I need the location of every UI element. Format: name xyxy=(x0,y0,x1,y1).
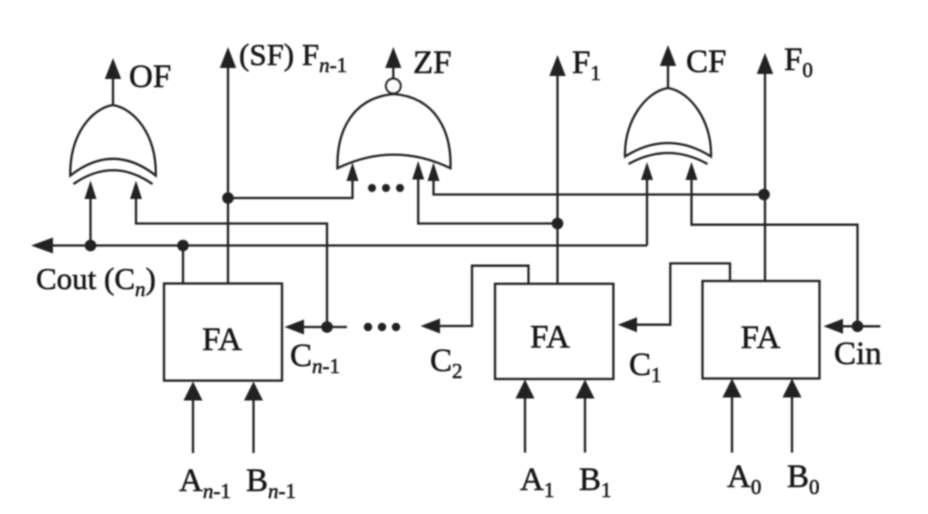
arrowhead F0 up xyxy=(757,53,773,74)
svg-text:B1: B1 xyxy=(579,462,612,502)
nor gate ZF body xyxy=(337,94,450,168)
svg-text:FA: FA xyxy=(530,320,570,356)
svg-text:CF: CF xyxy=(686,44,726,80)
xor gate CF lower arc xyxy=(629,153,708,164)
ellipsis dots on ZF inputs xyxy=(368,184,376,192)
svg-text:Cout (Cn): Cout (Cn) xyxy=(36,261,156,301)
arrowhead Cout left xyxy=(31,238,53,254)
wire carry C2 elbow from FA(1) xyxy=(437,266,529,326)
wire input A0 shaft xyxy=(731,395,733,453)
wire FA(n-1) carry-out riser xyxy=(182,246,184,284)
arrowhead F1 up xyxy=(549,55,565,76)
svg-text:(SF) Fn-1: (SF) Fn-1 xyxy=(239,37,347,77)
xor gate OF body xyxy=(70,105,156,176)
wire F1 sum line xyxy=(556,74,558,284)
arrowhead input An-1 up xyxy=(184,382,203,401)
arrowhead input Bn-1 up xyxy=(244,382,263,401)
junction dot on Cout at OF input xyxy=(85,240,97,252)
svg-text:F0: F0 xyxy=(784,42,813,82)
wire carry C(n-1) into FA(n-1) xyxy=(301,326,347,328)
svg-text:ZF: ZF xyxy=(413,45,452,81)
wire input An-1 shaft xyxy=(192,398,194,453)
svg-text:C1: C1 xyxy=(629,347,662,387)
xor gate CF body xyxy=(625,88,711,157)
wire input A1 shaft xyxy=(524,396,526,453)
arrowhead OF input left xyxy=(85,181,97,200)
wire OF input left shaft xyxy=(89,196,91,246)
wire CF input left shaft (from Cout line) xyxy=(646,178,648,246)
svg-text:OF: OF xyxy=(129,59,171,95)
svg-text:B0: B0 xyxy=(787,459,820,499)
arrowhead ZF flag up xyxy=(385,47,401,68)
junction dot on C(n-1) wire from OF input xyxy=(321,321,333,333)
svg-text:FA: FA xyxy=(741,320,781,356)
wire F0 sum line xyxy=(764,72,766,281)
junction dot on Cout at FA(n-1) carry-out xyxy=(177,240,189,252)
arrowhead CF input left xyxy=(641,162,653,180)
junction dot on SF line to ZF xyxy=(222,192,234,204)
svg-text:An-1: An-1 xyxy=(179,463,231,503)
wire CF output stub xyxy=(667,62,669,88)
arrowhead input A0 up xyxy=(723,379,742,398)
arrowhead ZF input3 xyxy=(428,163,440,182)
wire input Bn-1 shaft xyxy=(252,398,254,453)
ellipsis dots on carry chain xyxy=(364,323,372,331)
wire Cin into FA(0) xyxy=(840,325,880,327)
svg-text:Cin: Cin xyxy=(834,336,882,372)
wire Cout bus xyxy=(47,244,647,246)
inverter bubble on ZF output xyxy=(386,79,401,94)
junction dot on F0 line to ZF xyxy=(758,189,770,201)
wire input B1 shaft xyxy=(584,396,586,453)
arrowhead CF input right xyxy=(686,162,698,180)
arrowhead ZF input1 xyxy=(347,163,359,182)
svg-text:F1: F1 xyxy=(572,45,601,85)
arrowhead Cin left into FA(0) xyxy=(824,319,844,334)
svg-text:FA: FA xyxy=(202,322,242,358)
wire OF input right shaft xyxy=(136,196,327,327)
full-adder FA(0) box xyxy=(703,281,820,379)
arrowhead OF input right xyxy=(130,181,142,200)
arrowhead ZF input2 xyxy=(412,161,424,180)
arrowhead input B1 up xyxy=(576,380,595,399)
wire CF input right shaft xyxy=(692,178,858,326)
wire OF output stub xyxy=(112,75,114,105)
arrowhead input B0 up xyxy=(783,379,802,398)
arrowhead SF flag up xyxy=(220,47,236,68)
arrowhead CF flag up xyxy=(660,45,676,66)
svg-text:A0: A0 xyxy=(727,459,761,499)
wire carry C1 elbow from FA(0) xyxy=(634,263,730,324)
arrowhead carry C1 left into FA(1) xyxy=(618,317,637,332)
junction dot on Cin wire to CF xyxy=(852,321,864,333)
arrowhead input A1 up xyxy=(516,380,535,399)
wire ZF arrow shaft from bubble xyxy=(392,66,394,80)
wire SF / F(n-1) sum line xyxy=(227,66,229,284)
svg-text:Bn-1: Bn-1 xyxy=(246,463,296,503)
full-adder FA(n-1) box xyxy=(164,284,282,381)
junction dot on F1 line to ZF xyxy=(552,218,564,230)
svg-text:Cn-1: Cn-1 xyxy=(290,338,340,378)
wire input B0 shaft xyxy=(791,395,793,453)
svg-text:C2: C2 xyxy=(430,343,463,383)
full-adder FA(1) box xyxy=(495,284,613,379)
arrowhead carry C(n-1) left into FA(n-1) xyxy=(285,320,305,335)
arrowhead carry C2 left xyxy=(421,319,441,334)
arrowhead OF flag up xyxy=(105,58,121,79)
wire ZF input3 shaft xyxy=(434,180,765,195)
svg-text:A1: A1 xyxy=(520,462,554,502)
wire ZF input1 shaft xyxy=(228,180,353,198)
wire ZF input2 shaft xyxy=(418,179,557,224)
xor gate OF lower arc xyxy=(74,170,153,184)
